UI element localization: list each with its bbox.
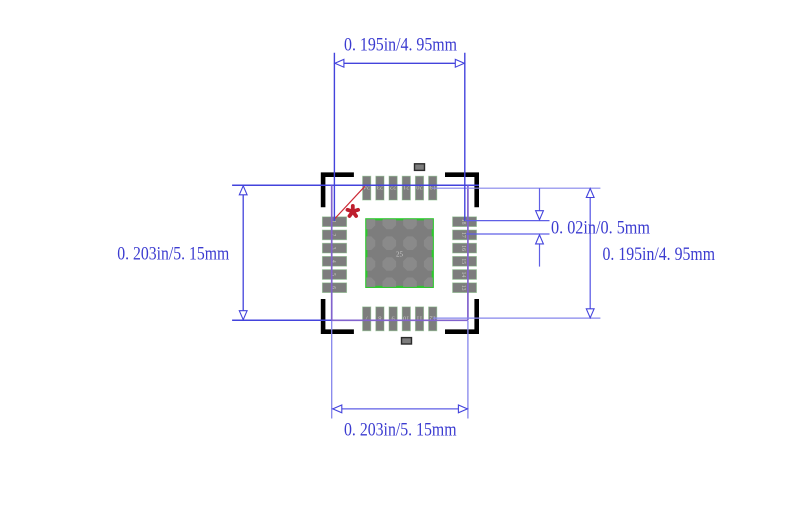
svg-text:0. 195in/4. 95mm: 0. 195in/4. 95mm: [344, 35, 457, 56]
svg-text:16: 16: [460, 245, 466, 251]
svg-text:14: 14: [460, 272, 466, 278]
svg-text:15: 15: [460, 258, 466, 264]
svg-text:0. 203in/5. 15mm: 0. 203in/5. 15mm: [344, 419, 457, 440]
svg-text:17: 17: [460, 232, 466, 238]
svg-text:13: 13: [460, 285, 466, 291]
svg-text:25: 25: [396, 251, 404, 259]
svg-text:0. 195in/4. 95mm: 0. 195in/4. 95mm: [603, 244, 716, 265]
svg-text:0. 02in/0. 5mm: 0. 02in/0. 5mm: [551, 218, 650, 239]
svg-text:0. 203in/5. 15mm: 0. 203in/5. 15mm: [117, 243, 229, 264]
